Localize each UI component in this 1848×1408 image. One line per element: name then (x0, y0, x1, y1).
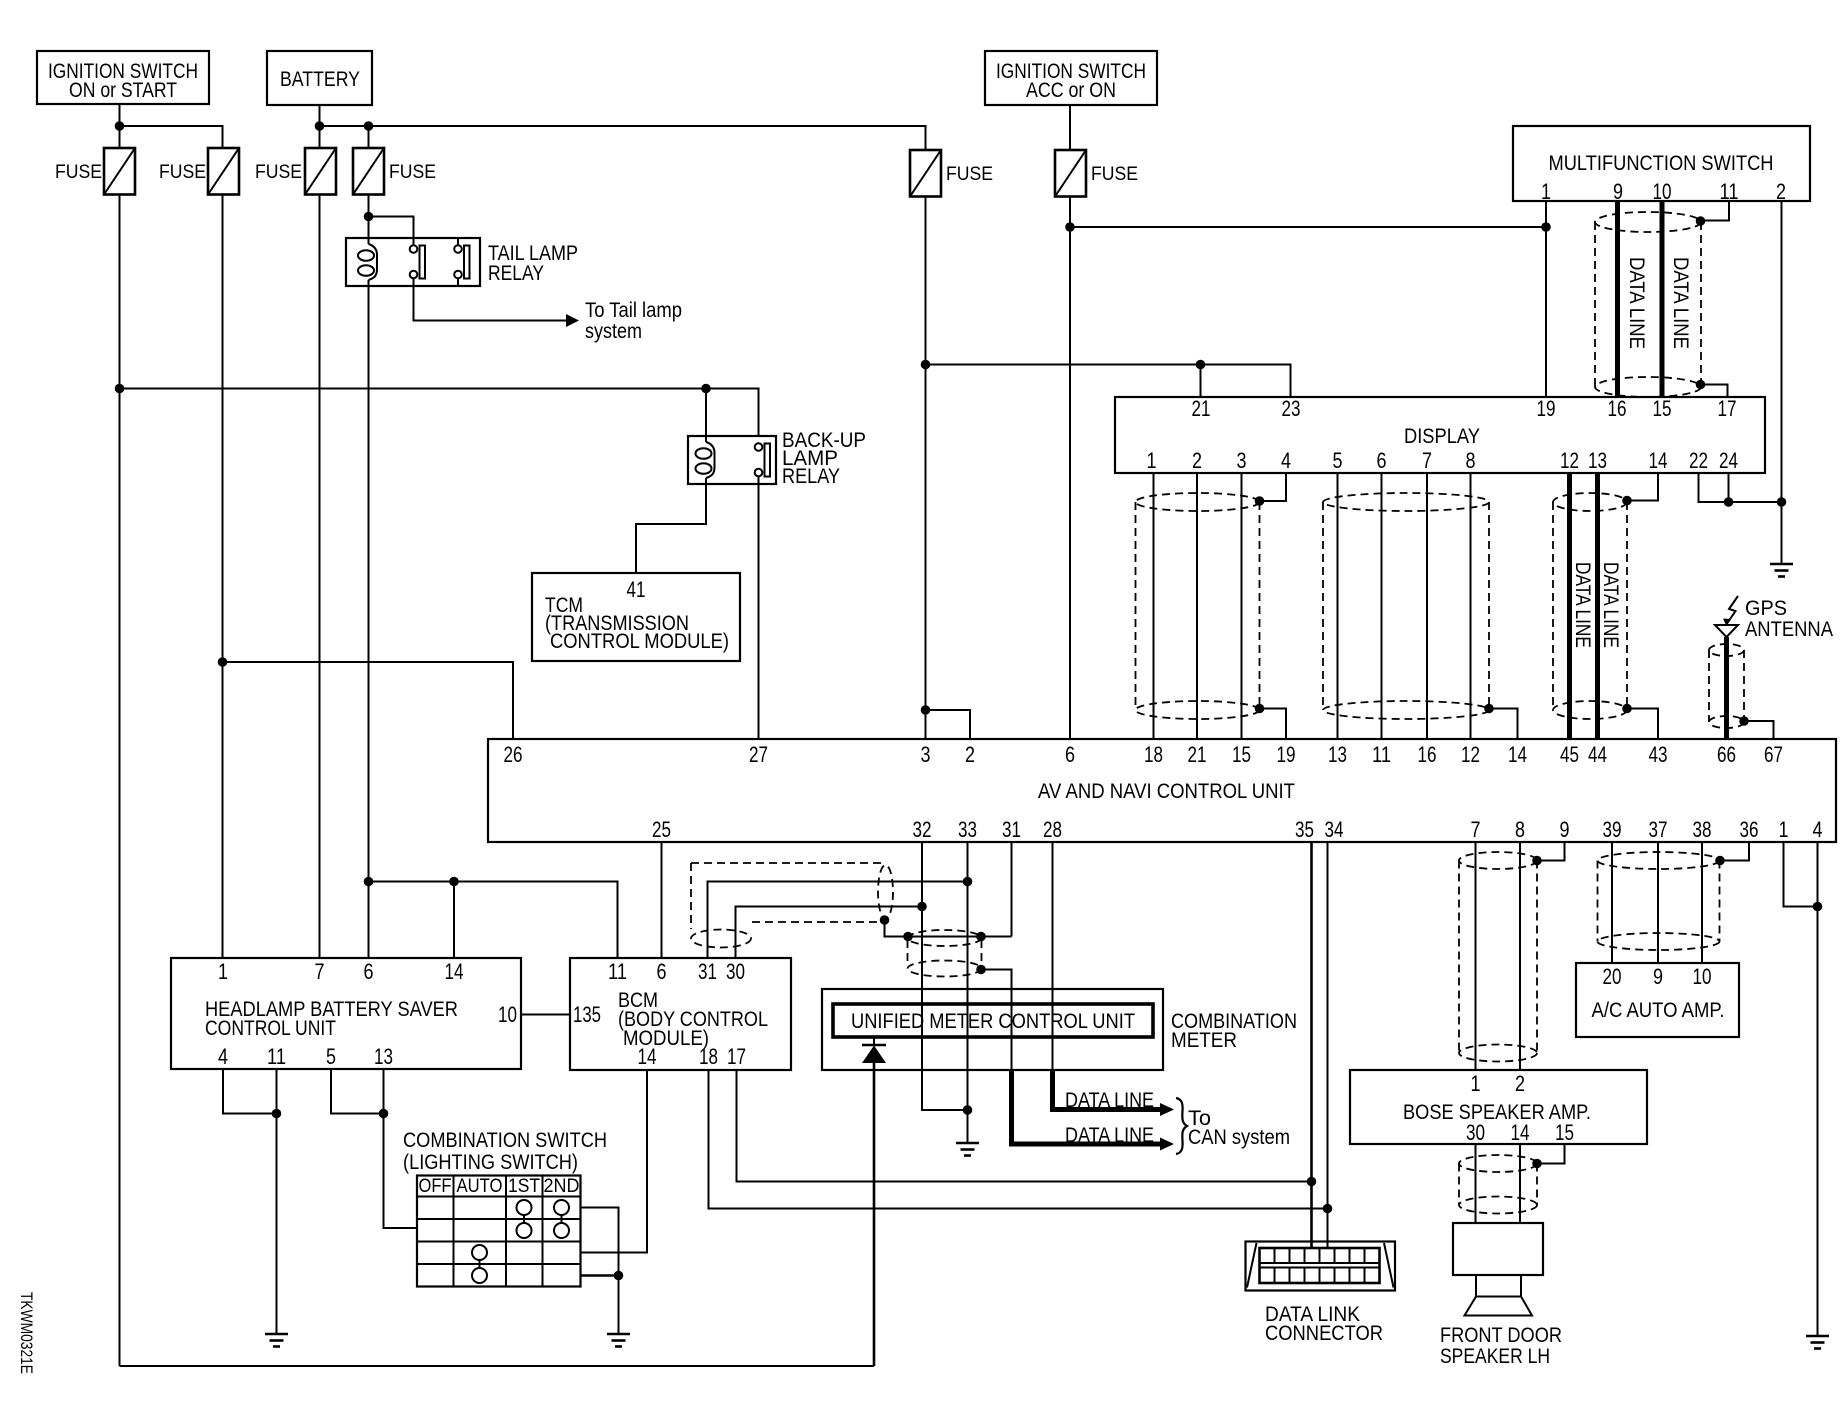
wire AV 33 down to ground (967, 842, 969, 1143)
svg-text:21: 21 (1192, 396, 1211, 421)
Bose speaker amp box (1350, 1070, 1647, 1145)
svg-text:66: 66 (1717, 742, 1736, 767)
svg-text:DISPLAY: DISPLAY (1404, 425, 1480, 448)
svg-text:135: 135 (573, 1002, 601, 1027)
svg-text:4: 4 (1281, 448, 1291, 473)
node shield 1 top drain (1255, 496, 1265, 506)
fuse F3 (305, 148, 336, 195)
svg-text:17: 17 (1718, 396, 1737, 421)
wire fuse 1 output down to back-up relay rail (119, 195, 121, 1367)
wire AV 35 to data link connector (1310, 842, 1313, 1249)
svg-text:3: 3 (1237, 448, 1247, 473)
svg-text:2: 2 (1192, 448, 1202, 473)
wire switch to ground (618, 1276, 620, 1335)
wire display 8 to AV 12 (1470, 473, 1472, 739)
node junction ACC rail (1065, 222, 1075, 232)
svg-text:6: 6 (1377, 448, 1387, 473)
node junction AV33/BCM31 (963, 877, 973, 887)
BCM body control module box (570, 958, 791, 1070)
wire AV 32 down through meter (922, 842, 968, 1110)
svg-text:1: 1 (1147, 448, 1157, 473)
svg-text:9: 9 (1560, 817, 1570, 842)
wire data line 1 from AV 28 (1053, 1070, 1161, 1110)
svg-text:14: 14 (445, 959, 464, 984)
svg-text:1: 1 (1471, 1071, 1481, 1096)
wire display 3 to AV 15 (1241, 473, 1243, 739)
node junction pin 24 (1724, 497, 1734, 507)
svg-text:15: 15 (1232, 742, 1251, 767)
svg-text:30: 30 (1466, 1120, 1485, 1145)
svg-text:15: 15 (1555, 1120, 1574, 1145)
node shield cylinder bottom right (976, 965, 986, 975)
svg-text:31: 31 (698, 959, 717, 984)
wire shield 2 drain to AV 14 (1489, 709, 1518, 740)
wire AV 8 to Bose 2 (1519, 842, 1521, 1070)
svg-text:14: 14 (638, 1044, 657, 1069)
svg-text:24: 24 (1719, 448, 1738, 473)
wire AV 4 to ground (1817, 842, 1819, 1336)
node junction multifunction pin 1 (1541, 222, 1551, 232)
svg-text:31: 31 (1002, 817, 1021, 842)
svg-text:2: 2 (965, 742, 975, 767)
node junction TCM branch (218, 657, 228, 667)
arrow to tail lamp system (566, 314, 579, 327)
svg-text:CAN system: CAN system (1188, 1126, 1290, 1149)
wire shield cylinder to unified meter (981, 970, 1012, 1071)
svg-text:7: 7 (315, 959, 325, 984)
fuse F1 (104, 148, 135, 195)
node shield bottom drain (1696, 380, 1706, 390)
wire AV 37 to AC amp (1657, 842, 1659, 963)
svg-text:19: 19 (1277, 742, 1296, 767)
label TAIL LAMP RELAY (488, 242, 578, 285)
svg-text:39: 39 (1603, 817, 1622, 842)
wire TCM rail to AV pin 26 (223, 662, 514, 739)
svg-text:43: 43 (1649, 742, 1668, 767)
fuse F5 (910, 150, 941, 197)
wire AV 28 down through meter (1052, 842, 1054, 1070)
node GPS shield drain (1739, 716, 1749, 726)
wire multifunction pin 1 to display pin 19 (1545, 201, 1547, 397)
svg-text:FUSE: FUSE (159, 162, 206, 183)
AC auto amp box (1576, 963, 1739, 1037)
svg-text:CONTROL UNIT: CONTROL UNIT (205, 1017, 336, 1040)
tail relay contact 2 (454, 238, 469, 286)
svg-text:13: 13 (374, 1044, 393, 1069)
fuse F4 (353, 148, 384, 195)
wire BCM 17 to AV 35 (737, 1070, 1312, 1182)
wire fuse 2 output down to TCM branch and headlamp pin 1 (222, 195, 224, 959)
svg-text:ANTENNA: ANTENNA (1745, 618, 1833, 641)
svg-text:45: 45 (1560, 742, 1579, 767)
wire headlamp pin 13 to combination switch (384, 1069, 418, 1228)
wire switch row1 stub (581, 1208, 619, 1276)
fuse F6 (1055, 150, 1086, 197)
svg-text:8: 8 (1515, 817, 1525, 842)
svg-text:FUSE: FUSE (55, 162, 102, 183)
svg-text:DATA LINE: DATA LINE (1571, 562, 1594, 648)
wire back-up relay coil feed upper (705, 389, 707, 443)
svg-text:AV AND NAVI CONTROL UNIT: AV AND NAVI CONTROL UNIT (1038, 780, 1295, 803)
wire display 13 data line to AV 44 (1595, 473, 1600, 739)
label FRONT DOOR SPEAKER LH (1440, 1324, 1562, 1368)
node junction ignition rail (115, 121, 125, 131)
TCM box (532, 573, 740, 661)
wire back-up relay contact to AV pin 27 (758, 477, 760, 740)
shield unrolled BCM to meter cable (691, 863, 893, 948)
wire back-up relay coil to TCM pin 41 (636, 478, 706, 573)
svg-text:To Tail lamp: To Tail lamp (585, 299, 682, 322)
wire ignition branch to fuse 2 (120, 126, 223, 148)
node shield 3 bottom drain (1622, 704, 1632, 714)
wire display pin 22 jog (1699, 473, 1729, 502)
svg-text:36: 36 (1740, 817, 1759, 842)
svg-text:13: 13 (1588, 448, 1607, 473)
svg-text:6: 6 (364, 959, 374, 984)
wire data line 2 from AV 31 (1012, 1070, 1161, 1144)
svg-text:DATA LINE: DATA LINE (1065, 1089, 1154, 1112)
svg-text:41: 41 (627, 577, 646, 602)
svg-text:CONTROL MODULE): CONTROL MODULE) (550, 630, 729, 653)
svg-text:14: 14 (1508, 742, 1527, 767)
svg-text:19: 19 (1537, 396, 1556, 421)
front door speaker LH symbol (1453, 1223, 1543, 1316)
svg-text:10: 10 (1693, 964, 1712, 989)
wire AV 7 to Bose 1 (1475, 842, 1477, 1070)
wire display pin 24 down (1729, 473, 1782, 502)
svg-text:9: 9 (1653, 964, 1663, 989)
tail relay coil (358, 244, 377, 280)
svg-text:33: 33 (958, 817, 977, 842)
svg-text:34: 34 (1325, 817, 1344, 842)
brace to CAN system (1176, 1098, 1187, 1154)
node junction display 22/24 ground (1777, 497, 1787, 507)
AV and NAVI control unit box (488, 739, 1836, 842)
wire display 14 to shield 3 top drain (1627, 473, 1658, 501)
svg-text:2ND: 2ND (544, 1176, 580, 1197)
svg-text:11: 11 (608, 959, 627, 984)
ground AV 4 (1806, 1336, 1829, 1349)
svg-text:16: 16 (1418, 742, 1437, 767)
node junction back-up relay coil branch (701, 384, 711, 394)
fuse F2 (208, 148, 239, 195)
node shield drain A (880, 915, 890, 925)
svg-text:20: 20 (1603, 964, 1622, 989)
wire AV 36 to AC shield (1720, 842, 1749, 861)
node junction BCM17/AV35 (1307, 1177, 1317, 1187)
svg-text:10: 10 (1653, 179, 1672, 204)
wire display 1 to AV 18 (1153, 473, 1155, 739)
wire multifunction pin 2 down (1781, 201, 1783, 564)
GPS antenna symbol (1715, 596, 1738, 637)
svg-text:6: 6 (657, 959, 667, 984)
svg-text:21: 21 (1188, 742, 1207, 767)
ignition switch ACC or ON box (985, 51, 1157, 105)
svg-text:28: 28 (1043, 817, 1062, 842)
svg-text:14: 14 (1649, 448, 1668, 473)
wire drop to display pin 21 (1200, 365, 1202, 398)
shield cylinder AC amp (1598, 852, 1720, 950)
wire multifunction pin 9 data line (1615, 201, 1620, 397)
wire BCM 31 to AV 33 (708, 882, 968, 959)
svg-text:MODULE): MODULE) (623, 1027, 709, 1050)
svg-text:METER: METER (1171, 1029, 1237, 1052)
svg-text:23: 23 (1282, 396, 1301, 421)
relay back-up lamp relay box (688, 436, 776, 484)
svg-text:9: 9 (1613, 179, 1623, 204)
node junction switch ground (614, 1271, 624, 1281)
svg-text:FUSE: FUSE (946, 164, 993, 185)
switch contacts 1ST (517, 1200, 532, 1238)
svg-text:UNIFIED METER CONTROL UNIT: UNIFIED METER CONTROL UNIT (851, 1010, 1135, 1033)
wire display 12 data line to AV 45 (1567, 473, 1572, 739)
node Bose shield drain (1532, 856, 1542, 866)
shield cylinder meter pair (908, 930, 982, 977)
wire headlamp pin 4 to ground link (223, 1069, 277, 1114)
node junction display feed (921, 360, 931, 370)
wire headlamp pin 11 to ground (276, 1069, 278, 1334)
ignition switch ON or START box (37, 51, 209, 104)
svg-text:8: 8 (1466, 448, 1476, 473)
svg-text:4: 4 (1813, 817, 1823, 842)
svg-text:OFF: OFF (419, 1176, 452, 1197)
svg-text:14: 14 (1511, 1120, 1530, 1145)
node junction meter ground (963, 1105, 973, 1115)
multifunction switch box (1513, 126, 1810, 204)
svg-text:17: 17 (727, 1044, 746, 1069)
svg-text:13: 13 (1328, 742, 1347, 767)
svg-text:(LIGHTING SWITCH): (LIGHTING SWITCH) (403, 1151, 578, 1174)
wire shield 3 drain to AV 43 (1627, 709, 1658, 740)
svg-text:1ST: 1ST (508, 1176, 540, 1197)
node junction pins 5/13 (379, 1109, 389, 1119)
svg-text:1: 1 (1541, 179, 1551, 204)
node shield 2 bottom drain (1484, 704, 1494, 714)
svg-text:6: 6 (1065, 742, 1075, 767)
svg-text:BATTERY: BATTERY (280, 68, 360, 91)
wire multifunction pin 10 data line (1660, 201, 1665, 397)
svg-text:COMBINATION SWITCH: COMBINATION SWITCH (403, 1129, 607, 1152)
svg-text:10: 10 (498, 1002, 517, 1027)
diode in combination meter (862, 1037, 886, 1063)
node junction AV pin 2 branch (921, 705, 931, 715)
wire tail relay output to tail lamp system (414, 279, 567, 321)
svg-text:TKWM0321E: TKWM0321E (17, 1292, 36, 1374)
node shield 3 top drain (1622, 496, 1632, 506)
wire Bose 30 to speaker (1475, 1144, 1477, 1223)
svg-text:12: 12 (1461, 742, 1480, 767)
svg-text:38: 38 (1693, 817, 1712, 842)
svg-text:CONNECTOR: CONNECTOR (1265, 1322, 1383, 1345)
wire tail relay coil feed-through lower, down to headlamp junction (368, 280, 370, 958)
svg-text:1: 1 (218, 959, 228, 984)
svg-text:27: 27 (749, 742, 768, 767)
wire battery rail to fuse 4 and fuse 5 (320, 126, 926, 150)
wire display 6 to AV 11 (1381, 473, 1383, 739)
svg-text:26: 26 (504, 742, 523, 767)
wire AV 9 to Bose shield (1537, 842, 1565, 861)
wire AV 1 to AV 4 link (1784, 842, 1818, 907)
svg-text:AUTO: AUTO (457, 1176, 503, 1197)
wire AV 31 upper segment (1011, 842, 1013, 937)
svg-text:FUSE: FUSE (255, 162, 302, 183)
battery box (267, 51, 372, 105)
wire AV 39 to AC amp (1611, 842, 1613, 963)
wire fuse 3 output down to headlamp pin 7 (319, 195, 321, 959)
svg-text:11: 11 (1372, 742, 1391, 767)
wire ignition drop to fuse 1 (119, 104, 121, 148)
svg-text:18: 18 (1144, 742, 1163, 767)
svg-text:32: 32 (913, 817, 932, 842)
svg-text:12: 12 (1560, 448, 1579, 473)
svg-text:5: 5 (1333, 448, 1343, 473)
svg-text:DATA LINE: DATA LINE (1065, 1124, 1154, 1147)
wire branch down to fuse 4 (368, 126, 370, 148)
wire tail relay coil feed-through upper (368, 217, 370, 245)
wire GPS antenna to AV 66 (1724, 637, 1729, 739)
label To CAN system (1188, 1107, 1290, 1149)
node speaker shield drain (1532, 1159, 1542, 1169)
svg-text:ON or START: ON or START (69, 79, 177, 102)
svg-text:1: 1 (1779, 817, 1789, 842)
back-up relay coil (696, 442, 715, 478)
svg-text:30: 30 (726, 959, 745, 984)
svg-text:SPEAKER LH: SPEAKER LH (1440, 1345, 1550, 1368)
node junction headlamp pin 6 (364, 877, 374, 887)
wire Bose 14 to speaker (1519, 1144, 1521, 1223)
node junction battery rail (315, 121, 325, 131)
wire shield drain link to AV 31 (885, 920, 1012, 937)
svg-text:11: 11 (267, 1044, 286, 1069)
label COMBINATION SWITCH (LIGHTING SWITCH) (403, 1129, 607, 1174)
wire fuse 6 to AV pin 6 (1069, 197, 1071, 740)
wire switch row4 stub (581, 1274, 619, 1277)
wire display 2 to AV 21 (1196, 473, 1198, 739)
wire shield 1 drain to AV 19 (1260, 709, 1287, 740)
node junction fuse 4 branch (364, 121, 374, 131)
shield cylinder Bose input pair (1459, 852, 1537, 1062)
wire multifunction pin 11 to shield (1701, 201, 1730, 221)
wire headlamp feed rail to BCM 11 (369, 882, 618, 959)
shield cylinder 1 display pins 1-4 (1136, 493, 1260, 719)
svg-text:35: 35 (1295, 817, 1314, 842)
label BACK-UP LAMP RELAY (782, 429, 866, 488)
wire headlamp pin 14 drop (453, 882, 455, 959)
combination meter box (822, 989, 1163, 1070)
data link connector (1246, 1242, 1396, 1291)
shield GPS antenna cable (1709, 644, 1744, 728)
shield cylinder 2 display pins 5-8 (1323, 493, 1489, 719)
relay tail lamp relay box (346, 238, 480, 286)
headlamp battery saver control unit box (171, 958, 521, 1069)
svg-text:3: 3 (921, 742, 931, 767)
back-up relay contact (755, 443, 770, 476)
svg-text:25: 25 (652, 817, 671, 842)
label GPS ANTENNA (1745, 597, 1833, 641)
switch contacts 2ND (554, 1200, 569, 1238)
svg-text:DATA LINE: DATA LINE (1625, 257, 1648, 349)
svg-text:ACC or ON: ACC or ON (1026, 79, 1116, 102)
node shield top drain (1696, 216, 1706, 226)
ground combination switch (607, 1334, 630, 1347)
svg-text:RELAY: RELAY (782, 465, 840, 488)
wire ACC drop to fuse 6 (1069, 105, 1071, 150)
node junction display pin 21 (1196, 360, 1206, 370)
combination switch table (417, 1176, 581, 1287)
wire display 5 to AV 13 (1337, 473, 1339, 739)
wire ACC rail to multifunction pin 1 line (1070, 226, 1546, 228)
node shield cylinder top right (976, 932, 986, 942)
node junction pins 4/11 (272, 1109, 282, 1119)
svg-text:37: 37 (1649, 817, 1668, 842)
wire headlamp pin 5 to pin 13 link (331, 1069, 384, 1114)
wire switch row3 stub to BCM 14 (581, 1070, 648, 1253)
svg-text:FUSE: FUSE (389, 162, 436, 183)
wire bottom rail to fuse 1 line (120, 1365, 875, 1367)
wire BCM 18 to AV 34 (709, 1070, 1328, 1209)
wire Bose 15 to speaker shield (1537, 1144, 1565, 1164)
svg-text:2: 2 (1515, 1071, 1525, 1096)
svg-text:44: 44 (1588, 742, 1607, 767)
node junction tail lamp relay branch (364, 212, 374, 222)
svg-text:RELAY: RELAY (488, 262, 544, 285)
svg-text:FRONT DOOR: FRONT DOOR (1440, 1324, 1562, 1347)
svg-text:A/C AUTO AMP.: A/C AUTO AMP. (1592, 999, 1725, 1022)
wire back-up relay power rail (120, 389, 759, 437)
wire branch to tail lamp relay contact (369, 217, 414, 246)
arrow data line 1 (1160, 1103, 1174, 1116)
svg-text:18: 18 (699, 1044, 718, 1069)
wire shield drain to display pin 17 (1701, 385, 1728, 398)
svg-text:DATA LINE: DATA LINE (1599, 562, 1622, 648)
svg-text:7: 7 (1422, 448, 1432, 473)
tail relay contact 1 (410, 245, 425, 278)
wire jog to AV pin 2 (926, 710, 971, 739)
wire display 4 to shield 1 drain (1260, 473, 1287, 501)
wire AV 34 to data link connector (1327, 842, 1329, 1249)
node junction BCM18/AV34 (1323, 1204, 1333, 1214)
ground below combination meter (956, 1143, 979, 1156)
label COMBINATION METER (1171, 1010, 1297, 1052)
svg-text:system: system (585, 320, 642, 343)
svg-text:GPS: GPS (1745, 597, 1787, 620)
wire AV 38 to AC amp (1701, 842, 1703, 963)
wire diode down to bottom rail (873, 1063, 876, 1366)
svg-text:15: 15 (1653, 396, 1672, 421)
shield cylinder 3 display data lines (1553, 493, 1627, 719)
wire GPS shield drain to AV 67 (1744, 721, 1774, 739)
wire BCM 30 to AV 32 (736, 907, 923, 959)
wire battery drop to fuse 3 (319, 105, 321, 148)
ground for display pins 22/24 (1770, 564, 1793, 577)
arrow data line 2 (1160, 1138, 1174, 1151)
label To Tail lamp system (585, 299, 682, 343)
svg-text:MULTIFUNCTION SWITCH: MULTIFUNCTION SWITCH (1549, 152, 1774, 175)
switch contacts AUTO (472, 1245, 487, 1283)
svg-text:5: 5 (326, 1044, 336, 1069)
svg-text:16: 16 (1608, 396, 1627, 421)
ground headlamp (265, 1334, 288, 1347)
wire fuse 5 to AV pin 3 (925, 197, 927, 740)
wire display 21/23 feed rail (926, 365, 1291, 398)
svg-text:2: 2 (1776, 179, 1786, 204)
shield around multifunction data lines (1595, 212, 1701, 397)
svg-text:FUSE: FUSE (1091, 164, 1138, 185)
wire headlamp 10 to BCM 135 (521, 1014, 570, 1016)
node shield 1 bottom drain (1255, 704, 1265, 714)
node junction headlamp pin 14 (449, 877, 459, 887)
display box (1115, 396, 1765, 473)
